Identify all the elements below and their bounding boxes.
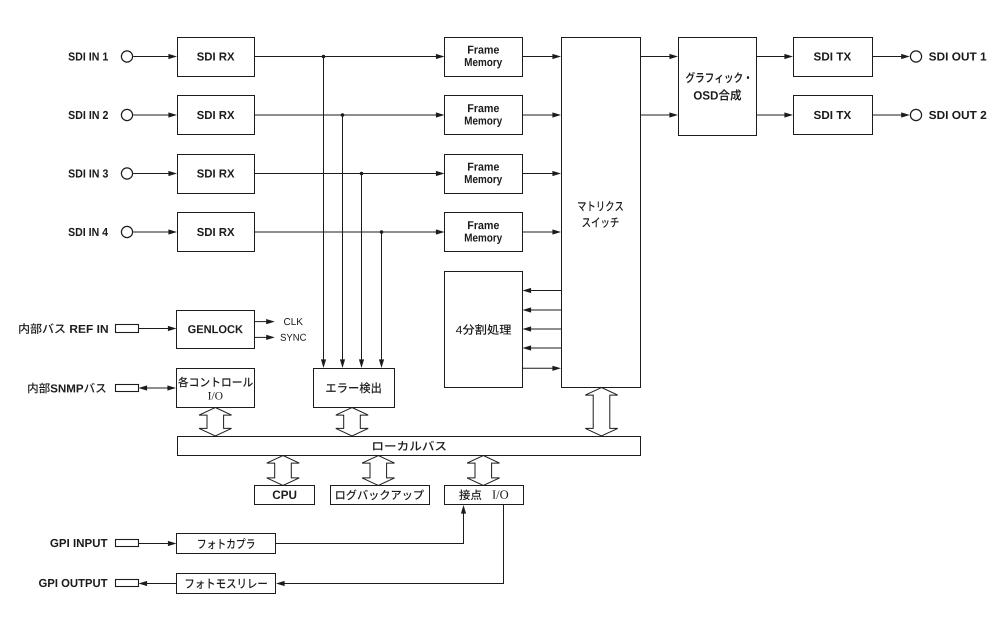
wire Frame Memory 3 to matrix switch xyxy=(523,171,562,176)
label matrix switch line2 xyxy=(582,217,618,228)
label matrix switch line1 xyxy=(578,201,623,211)
wire GENLOCK CLK out xyxy=(255,319,275,324)
connector SDI IN 3 xyxy=(121,168,132,179)
junction tap 2 xyxy=(341,113,345,117)
wire tap 2 to error detect xyxy=(340,115,345,368)
block photocoupler xyxy=(177,534,276,554)
connector GPI OUTPUT xyxy=(116,580,139,587)
block SDI TX 1 xyxy=(794,38,873,77)
label Frame Memory 4 line1 xyxy=(468,221,499,229)
wire tap 3 to error detect xyxy=(359,174,364,369)
label control IO line2 xyxy=(208,392,222,400)
block Frame Memory 4 xyxy=(445,213,523,252)
label GPI OUTPUT xyxy=(39,579,107,587)
wire SDI IN 4 to SDI RX 4 xyxy=(133,229,177,234)
block SDI RX 2 xyxy=(178,96,255,135)
wire contact IO to photomos relay xyxy=(276,505,504,586)
block GENLOCK xyxy=(177,311,255,349)
label SDI IN 4 xyxy=(68,228,108,236)
label SDI TX 2 xyxy=(814,111,851,119)
label internal SNMP bus xyxy=(28,383,105,394)
wire SDI RX 1 to Frame Memory 1 xyxy=(255,54,445,59)
block photomos relay xyxy=(177,574,276,594)
label Frame Memory 1 line2 xyxy=(465,58,502,68)
wire tap 1 to error detect xyxy=(321,57,326,369)
wire REF IN to GENLOCK xyxy=(138,326,177,331)
label GPI INPUT xyxy=(50,539,107,547)
block Frame Memory 2 xyxy=(445,96,523,135)
connector SNMP xyxy=(116,385,139,392)
bus arrow local bus to log backup xyxy=(362,456,394,486)
label control IO line1 xyxy=(178,377,253,388)
label SDI OUT 1 xyxy=(929,52,986,60)
connector SDI IN 2 xyxy=(121,109,132,120)
block SDI RX 3 xyxy=(178,155,255,194)
wire SDI IN 2 to SDI RX 2 xyxy=(133,112,177,117)
wire graphics OSD to SDI TX 1 xyxy=(757,54,794,59)
label error detect xyxy=(326,382,381,393)
connector SDI OUT 2 xyxy=(910,109,921,120)
label photocoupler xyxy=(198,538,254,549)
block control IO xyxy=(177,369,255,408)
label graphics OSD line1 xyxy=(686,72,749,83)
wire GENLOCK SYNC out xyxy=(255,335,275,340)
connector SDI IN 4 xyxy=(121,226,132,237)
label internal bus REF IN xyxy=(19,323,108,334)
block log backup xyxy=(331,486,430,505)
wire SDI RX 3 to Frame Memory 3 xyxy=(255,171,445,176)
wire GPI INPUT to photocoupler xyxy=(138,541,177,546)
block matrix switch xyxy=(562,38,641,388)
label SDI IN 2 xyxy=(68,111,108,119)
junction tap 1 xyxy=(322,55,326,59)
block SDI RX 4 xyxy=(178,213,255,252)
block SDI RX 1 xyxy=(178,38,255,77)
label quad split processing xyxy=(456,324,511,335)
wire SDI TX 2 to SDI OUT 2 xyxy=(872,112,910,117)
connector REF IN xyxy=(116,325,139,333)
label Frame Memory 4 line2 xyxy=(465,234,502,244)
label Frame Memory 3 line2 xyxy=(465,175,502,185)
label SDI RX 4 xyxy=(197,228,234,236)
wire graphics OSD to SDI TX 2 xyxy=(757,112,794,117)
wire SDI IN 3 to SDI RX 3 xyxy=(133,171,177,176)
label contact IO xyxy=(459,489,508,500)
wire matrix to graphics OSD ch2 xyxy=(640,112,678,117)
wire matrix to quad split 3 xyxy=(523,326,562,331)
bus arrow matrix to local bus xyxy=(585,388,617,437)
connector SDI OUT 1 xyxy=(910,51,921,62)
wire SNMP to control IO right xyxy=(140,385,176,390)
wire Frame Memory 2 to matrix switch xyxy=(523,112,562,117)
wire tap 4 to error detect xyxy=(379,232,384,368)
label Frame Memory 2 line1 xyxy=(468,104,499,112)
bus arrow local bus to contact IO xyxy=(467,456,499,486)
label CPU xyxy=(273,491,296,500)
wire matrix to quad split 1 xyxy=(523,288,562,293)
block graphics OSD xyxy=(679,38,757,136)
label SYNC xyxy=(280,334,306,341)
block error detect xyxy=(314,369,395,408)
block Frame Memory 3 xyxy=(445,155,523,194)
wire photomos relay to GPI OUTPUT xyxy=(139,581,177,586)
wire photocoupler to contact IO xyxy=(275,505,466,544)
junction tap 3 xyxy=(360,172,364,176)
bus arrow error detect to local bus xyxy=(336,408,368,437)
wire SDI IN 1 to SDI RX 1 xyxy=(133,54,177,59)
block SDI TX 2 xyxy=(794,96,873,135)
connector GPI INPUT xyxy=(116,540,139,547)
wire matrix to graphics OSD ch1 xyxy=(640,54,678,59)
label SDI RX 1 xyxy=(197,52,234,60)
label local bus xyxy=(373,441,446,451)
label Frame Memory 1 line1 xyxy=(468,46,499,54)
bus arrow control IO to local bus xyxy=(199,408,231,437)
bus arrow local bus to CPU xyxy=(267,456,299,486)
label SDI IN 1 xyxy=(68,52,108,60)
wire matrix to quad split 2 xyxy=(523,307,562,312)
label SDI RX 3 xyxy=(197,169,234,177)
label SDI RX 2 xyxy=(197,111,234,119)
wire SDI RX 2 to Frame Memory 2 xyxy=(255,112,445,117)
wire SDI TX 1 to SDI OUT 1 xyxy=(872,54,910,59)
wire SNMP to control IO left arrowhead xyxy=(139,385,148,390)
connector SDI IN 1 xyxy=(121,51,132,62)
wire SDI RX 4 to Frame Memory 4 xyxy=(255,229,445,234)
label photomos relay xyxy=(186,579,267,589)
label SDI IN 3 xyxy=(68,169,108,177)
wire Frame Memory 1 to matrix switch xyxy=(523,54,562,59)
block contact IO xyxy=(445,486,524,505)
block local bus xyxy=(178,437,641,456)
label SDI TX 1 xyxy=(814,52,851,60)
label graphics OSD line2 xyxy=(694,89,741,100)
label GENLOCK xyxy=(188,325,243,333)
label CLK xyxy=(284,318,303,325)
block CPU xyxy=(255,486,315,505)
label log backup xyxy=(336,489,424,500)
label Frame Memory 3 line1 xyxy=(468,163,499,171)
block quad split processing xyxy=(445,272,523,388)
label Frame Memory 2 line2 xyxy=(465,117,502,127)
block Frame Memory 1 xyxy=(445,38,523,77)
junction tap 4 xyxy=(380,230,384,234)
wire quad split to matrix xyxy=(523,366,562,371)
wire matrix to quad split 4 xyxy=(523,345,562,350)
label SDI OUT 2 xyxy=(929,111,986,119)
wire Frame Memory 4 to matrix switch xyxy=(523,229,562,234)
